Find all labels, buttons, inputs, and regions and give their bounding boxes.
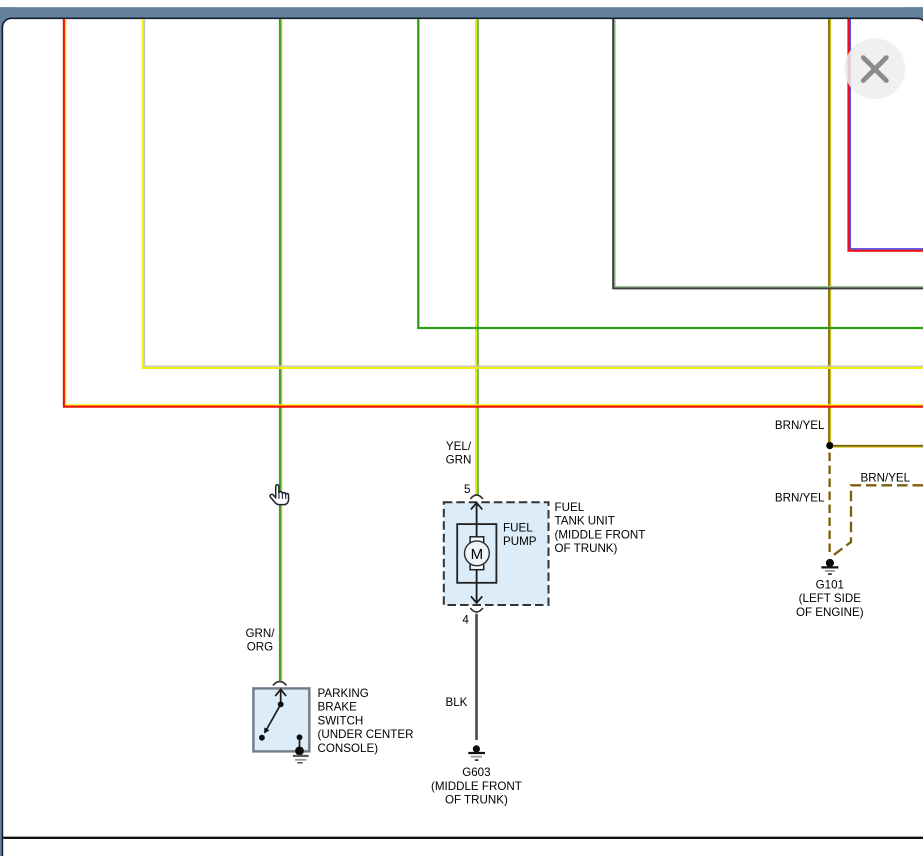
svg-text:(MIDDLE FRONT: (MIDDLE FRONT <box>555 528 646 541</box>
wire RED/BLU (vertical then right at y=249.5) <box>849 19 923 251</box>
svg-text:BRN/YEL: BRN/YEL <box>775 491 825 504</box>
motor brush bottom <box>470 564 484 570</box>
svg-text:OF TRUNK): OF TRUNK) <box>445 794 508 807</box>
svg-text:CONSOLE): CONSOLE) <box>318 742 379 755</box>
svg-text:BRN/YEL: BRN/YEL <box>775 419 825 432</box>
svg-text:(UNDER CENTER: (UNDER CENTER <box>318 728 414 741</box>
svg-text:BRAKE: BRAKE <box>318 701 358 714</box>
wire YEL (with gray stripe, vertical then right at y=367) <box>143 19 923 368</box>
svg-text:TANK UNIT: TANK UNIT <box>555 515 615 528</box>
wire BLK (fuel pump to G603) <box>475 614 478 740</box>
wire RED/YEL (left, vertical then right at y=406) <box>64 19 923 407</box>
svg-text:M: M <box>471 546 484 563</box>
mouse hand cursor <box>270 485 289 505</box>
backdrop left strip <box>0 7 2 856</box>
connector arc parking brake <box>273 682 287 686</box>
wire YEL/GRN (to fuel tank unit) <box>476 19 478 495</box>
connector arc pin 4 <box>470 608 483 612</box>
svg-text:PUMP: PUMP <box>503 535 537 548</box>
svg-text:BRN/YEL: BRN/YEL <box>861 472 911 485</box>
svg-text:4: 4 <box>462 613 469 626</box>
svg-text:(MIDDLE FRONT: (MIDDLE FRONT <box>431 780 522 793</box>
svg-text:GRN/: GRN/ <box>246 627 276 640</box>
backdrop top bar <box>0 7 923 18</box>
svg-text:BLK: BLK <box>446 696 468 709</box>
switch upper contact dot <box>278 701 284 707</box>
svg-text:ORG: ORG <box>247 641 273 654</box>
wire BRN/YEL dashed vertical to G101 <box>828 453 830 556</box>
case ground bars <box>293 756 309 763</box>
wire GRN (vertical then right at y=328) <box>418 19 923 328</box>
wire BRN/YEL solid horizontal branch to right <box>833 446 923 447</box>
svg-text:(LEFT SIDE: (LEFT SIDE <box>799 592 862 605</box>
wire inside fuel tank unit (top segment with up arrow) <box>471 503 482 537</box>
svg-text:FUEL: FUEL <box>555 501 585 514</box>
ground G603 symbol <box>468 745 485 760</box>
backdrop top-right corner patch <box>904 7 923 31</box>
close button <box>844 38 905 99</box>
wire BLK/LT-GRN (vertical then right at y=287.5) <box>613 19 923 288</box>
svg-text:FUEL: FUEL <box>503 522 533 535</box>
junction dot BRN/YEL <box>826 442 833 449</box>
svg-text:YEL/: YEL/ <box>446 440 472 453</box>
backdrop top-left corner patch <box>0 7 17 38</box>
switch lower contact dot <box>259 735 265 741</box>
svg-text:5: 5 <box>464 483 470 496</box>
wire BRN/YEL main vertical <box>829 19 830 446</box>
switch common contact with up arrow <box>275 689 286 704</box>
case ground dot <box>295 747 304 756</box>
fuel pump inner box <box>457 524 496 583</box>
switch right contact to case ground <box>299 737 301 751</box>
wire BRN/YEL dashed branch from right edge <box>833 485 923 556</box>
svg-text:OF TRUNK): OF TRUNK) <box>555 542 618 555</box>
svg-text:OF ENGINE): OF ENGINE) <box>796 606 864 619</box>
switch lever with arrowhead <box>267 704 281 729</box>
svg-text:G603: G603 <box>462 766 490 779</box>
fuel tank unit dashed box <box>444 502 549 605</box>
motor M circle <box>465 541 490 566</box>
switch right contact dot <box>297 734 303 740</box>
svg-text:SWITCH: SWITCH <box>318 714 364 727</box>
svg-text:G101: G101 <box>816 578 844 591</box>
svg-text:GRN: GRN <box>446 454 472 467</box>
svg-text:PARKING: PARKING <box>318 687 369 700</box>
diagram bottom separator <box>3 837 923 839</box>
connector arc pin 5 <box>470 495 483 499</box>
wire GRN/ORG (to parking brake switch) <box>280 19 282 681</box>
motor brush top <box>470 537 484 543</box>
ground G101 symbol <box>821 559 838 574</box>
parking brake switch box <box>253 688 309 751</box>
wire inside fuel tank unit (bottom segment with down arrow) <box>471 570 482 603</box>
